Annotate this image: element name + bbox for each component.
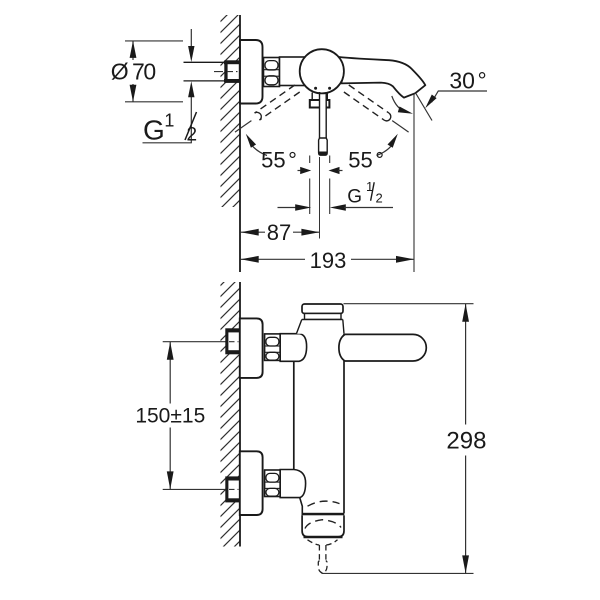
diameter 70 dimension line	[132, 41, 134, 102]
svg-text:2: 2	[376, 191, 383, 206]
cartridge ball housing (side view)	[300, 49, 344, 93]
wall face line (side view)	[239, 15, 241, 272]
55 deg arc arrowhead right	[388, 134, 398, 148]
S-union hex nut (side view)	[264, 58, 280, 87]
lever width arrows (row under lever)	[298, 170, 302, 172]
87 dimension	[241, 231, 320, 233]
outlet centerline	[319, 157, 321, 239]
diameter 70 dimension extension lines	[125, 41, 183, 102]
housing screw dots	[314, 87, 317, 90]
G 1/2 wall connection leader	[143, 29, 192, 143]
check valve cup	[302, 515, 344, 537]
svg-text:G: G	[143, 115, 165, 146]
upper wall escutcheon	[240, 318, 263, 378]
lever handle (front view)	[339, 334, 426, 361]
upper S-union (front view)	[265, 334, 281, 361]
wall hatching (side view)	[221, 15, 241, 207]
supply pipe centerline (dash-dot)	[214, 71, 235, 73]
G 1/2 outlet label	[347, 179, 382, 208]
upper union nut behind wall	[226, 329, 240, 354]
cup bottom (thick)	[304, 536, 343, 539]
upper supply centerline / 150 extension line	[163, 341, 239, 343]
hose nipple hidden (dashed)	[308, 540, 338, 573]
centerline through upper nut	[229, 341, 239, 343]
svg-text:193: 193	[310, 248, 347, 273]
outlet joint (thick)	[302, 513, 345, 516]
centerline through nut	[227, 71, 238, 73]
55 deg angle extension line (right)	[392, 121, 408, 133]
G 1/2 wall connection label	[143, 110, 197, 145]
55 deg angle extension line (left)	[235, 121, 251, 133]
spout cap (front view, top)	[302, 304, 343, 314]
svg-text:Ø 70: Ø 70	[111, 59, 156, 85]
wall escutcheon (side view)	[240, 40, 263, 104]
svg-text:87: 87	[267, 220, 291, 245]
30 deg angle reference line	[416, 93, 432, 121]
dashed lever rotated position (right 55 deg)	[344, 85, 391, 121]
G 1/2 outlet dimension arrows	[278, 207, 297, 209]
union nut behind wall (side view)	[224, 61, 240, 82]
hidden cartridge in cup (dashed)	[305, 520, 341, 529]
svg-text:298: 298	[446, 428, 486, 455]
spout (side view)	[334, 57, 425, 98]
check valve hidden dome (dashed)	[308, 501, 340, 506]
lever grip end	[319, 138, 328, 155]
193 dimension	[241, 258, 414, 260]
body neck	[296, 320, 344, 334]
svg-text:55°: 55°	[261, 148, 297, 173]
svg-text:150±15: 150±15	[135, 405, 205, 428]
outlet extension lines	[310, 156, 330, 215]
30 deg leader with arrowhead (right)	[432, 91, 488, 102]
wall hatching (front view)	[221, 282, 241, 547]
svg-text:1: 1	[164, 110, 174, 130]
svg-text:30°: 30°	[449, 68, 486, 94]
centerline through lower nut	[229, 488, 239, 490]
lower supply centerline / 150 extension line	[163, 488, 239, 490]
lower wall escutcheon	[240, 451, 263, 515]
cap ring	[305, 314, 342, 320]
spout tip extension line	[413, 93, 415, 272]
wall face line (front view)	[239, 282, 241, 547]
svg-text:G: G	[347, 187, 362, 208]
mixer body cylinder (side view)	[280, 57, 310, 86]
body outlet taper	[300, 498, 303, 513]
svg-text:55°: 55°	[348, 148, 384, 173]
lower union nut behind wall	[226, 477, 240, 502]
svg-text:2: 2	[187, 124, 198, 145]
upper connection elbow	[280, 334, 306, 362]
lever collar	[310, 100, 330, 108]
55 deg arc arrowhead left	[246, 134, 256, 148]
faucet body column (front view)	[294, 334, 344, 513]
supply pipe behind wall	[184, 62, 227, 81]
lever neck (side view)	[312, 93, 327, 101]
30 deg arc with arrowhead (left)	[392, 96, 407, 112]
298 dimension	[465, 304, 467, 574]
dashed lever rotated position (left 55 deg)	[255, 85, 300, 120]
150 +/-15 dimension	[169, 342, 171, 490]
298 top extension line	[344, 303, 474, 305]
298 bottom extension line	[322, 572, 474, 574]
lower connection elbow	[280, 470, 305, 498]
lever stem (passes in front of collar)	[320, 92, 327, 138]
lower S-union (front view)	[265, 470, 281, 497]
